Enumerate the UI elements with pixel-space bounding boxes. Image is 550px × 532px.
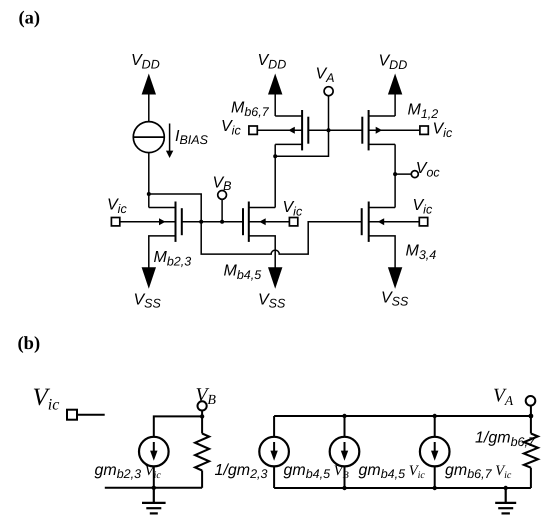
- current source gmb2,3 Vic: [139, 437, 169, 467]
- transistor Mb2,3: [149, 202, 182, 269]
- svg-text:gmb6,7 Vic: gmb6,7 Vic: [445, 462, 512, 481]
- wire gate of M3,4 from Mb2,3 with hop: [201, 222, 362, 254]
- svg-text:Vic: Vic: [433, 121, 453, 141]
- current source gmb4,5 VB: [259, 416, 289, 488]
- wire top rail right cell: [274, 415, 531, 417]
- wire bulk input M3,4: [369, 221, 420, 223]
- terminal Vic square small-signal: [67, 410, 77, 420]
- current arrow IBIAS: [166, 124, 173, 159]
- svg-text:1/gm2,3: 1/gm2,3: [215, 462, 268, 481]
- terminal Vic square left: [111, 218, 119, 226]
- power VSS arrow middle: [268, 267, 282, 289]
- terminal Vic square at Mb6,7: [249, 126, 257, 134]
- svg-text:gmb2,3 Vic: gmb2,3 Vic: [95, 462, 162, 481]
- node Voc junction: [393, 172, 397, 176]
- wire bulk input Mb4,5: [249, 221, 290, 223]
- transistor Mb4,5: [243, 202, 275, 269]
- svg-text:(b): (b): [18, 334, 41, 354]
- wire current source to bottom rail: [153, 466, 155, 487]
- svg-text:VDD: VDD: [258, 52, 287, 72]
- svg-text:Mb6,7: Mb6,7: [231, 100, 270, 120]
- power VSS arrow left: [142, 267, 156, 289]
- wire bottom rail right cell: [274, 487, 531, 489]
- transistor Mb6,7: [275, 110, 308, 150]
- node VA rail junction: [529, 414, 534, 419]
- wire dangling Vic: [77, 414, 105, 416]
- wire diode connection Mb6,7: [275, 130, 328, 156]
- transistor M3,4: [362, 202, 395, 269]
- terminal VA small-signal: [526, 396, 536, 416]
- svg-text:VB: VB: [213, 175, 232, 194]
- wire VDD to M1,2 source: [394, 93, 396, 116]
- current source gmb4,5 Vic: [330, 416, 360, 488]
- svg-text:(a): (a): [19, 9, 41, 29]
- svg-text:IBIAS: IBIAS: [175, 128, 209, 147]
- current source gmb6,7 Vic: [420, 416, 450, 488]
- svg-text:M3,4: M3,4: [406, 242, 437, 261]
- wire bulk input M1,2: [369, 129, 420, 131]
- terminal VB: [218, 191, 227, 222]
- svg-text:1/gmb6,7: 1/gmb6,7: [475, 430, 536, 449]
- wire bulk input Mb2,3: [120, 221, 176, 223]
- ground left: [142, 488, 166, 514]
- wire top rail left cell: [154, 416, 202, 437]
- power VSS arrow right: [388, 267, 402, 289]
- node ground junction right: [504, 486, 508, 490]
- terminal VB small-signal: [198, 401, 207, 416]
- node VA junction: [327, 128, 331, 132]
- wire diode connection Mb2,3 gate-drain: [149, 194, 201, 222]
- node IBIAS/Mb2,3 drain junction: [147, 192, 151, 196]
- wire gate row top Mb6,7 to M1,2: [308, 129, 362, 131]
- svg-text:Vic: Vic: [107, 197, 127, 217]
- terminal Vic square at M3,4: [419, 218, 427, 226]
- node ground junction left: [152, 486, 156, 490]
- ground right: [495, 488, 516, 513]
- wire bulk input Mb6,7: [257, 129, 302, 131]
- power VDD arrow right: [388, 74, 402, 95]
- svg-text:Vic: Vic: [221, 118, 241, 138]
- svg-text:VDD: VDD: [131, 52, 160, 72]
- wire current source to node: [148, 153, 150, 208]
- svg-text:VSS: VSS: [134, 292, 162, 311]
- svg-text:Voc: Voc: [416, 160, 441, 180]
- terminal VA: [324, 87, 333, 131]
- terminal Vic square at Mb4,5: [289, 218, 297, 226]
- transistor M1,2: [362, 110, 395, 150]
- svg-text:VA: VA: [493, 386, 514, 409]
- node top rail at gmb4,5 Vic: [342, 414, 346, 418]
- svg-text:Vic: Vic: [413, 197, 433, 217]
- node gate-drain junction: [199, 220, 203, 224]
- wire VDD to current source: [148, 93, 150, 122]
- svg-text:Mb2,3: Mb2,3: [154, 249, 192, 269]
- resistor 1/gmb6,7: [524, 416, 538, 488]
- current source IBIAS: [133, 122, 164, 153]
- wire VDD to Mb6,7 source: [274, 93, 276, 116]
- svg-text:Vic: Vic: [33, 384, 60, 414]
- svg-text:VA: VA: [316, 65, 335, 85]
- wire bottom rail left cell: [105, 487, 202, 489]
- svg-text:gmb4,5 Vic: gmb4,5 Vic: [359, 462, 426, 481]
- node VB rail junction: [200, 414, 204, 418]
- power VDD arrow middle: [268, 74, 282, 95]
- wire gate row Mb2,3 to Mb4,5: [182, 221, 243, 223]
- node bottom rail at gmb6,7 Vic: [433, 486, 437, 490]
- node bottom rail at gmb4,5 Vic: [342, 486, 346, 490]
- power VDD arrow left: [142, 74, 156, 95]
- svg-text:VDD: VDD: [379, 53, 408, 73]
- terminal Vic square at M1,2: [420, 126, 428, 134]
- wire M1,2 drain down to M3,4 drain: [394, 144, 396, 207]
- node VB junction: [220, 220, 224, 224]
- svg-text:M1,2: M1,2: [408, 102, 439, 122]
- resistor 1/gm2,3: [195, 416, 209, 487]
- wire Mb6,7 drain down to Mb4,5 drain: [274, 144, 276, 207]
- svg-text:Vic: Vic: [283, 199, 303, 219]
- node Mb6,7 drain junction: [273, 154, 277, 158]
- node top rail at gmb6,7 Vic: [433, 414, 437, 418]
- terminal Voc: [395, 171, 418, 178]
- svg-text:VSS: VSS: [258, 292, 286, 311]
- svg-text:VB: VB: [196, 385, 217, 408]
- svg-text:Mb4,5: Mb4,5: [224, 263, 262, 283]
- svg-text:VSS: VSS: [381, 290, 409, 309]
